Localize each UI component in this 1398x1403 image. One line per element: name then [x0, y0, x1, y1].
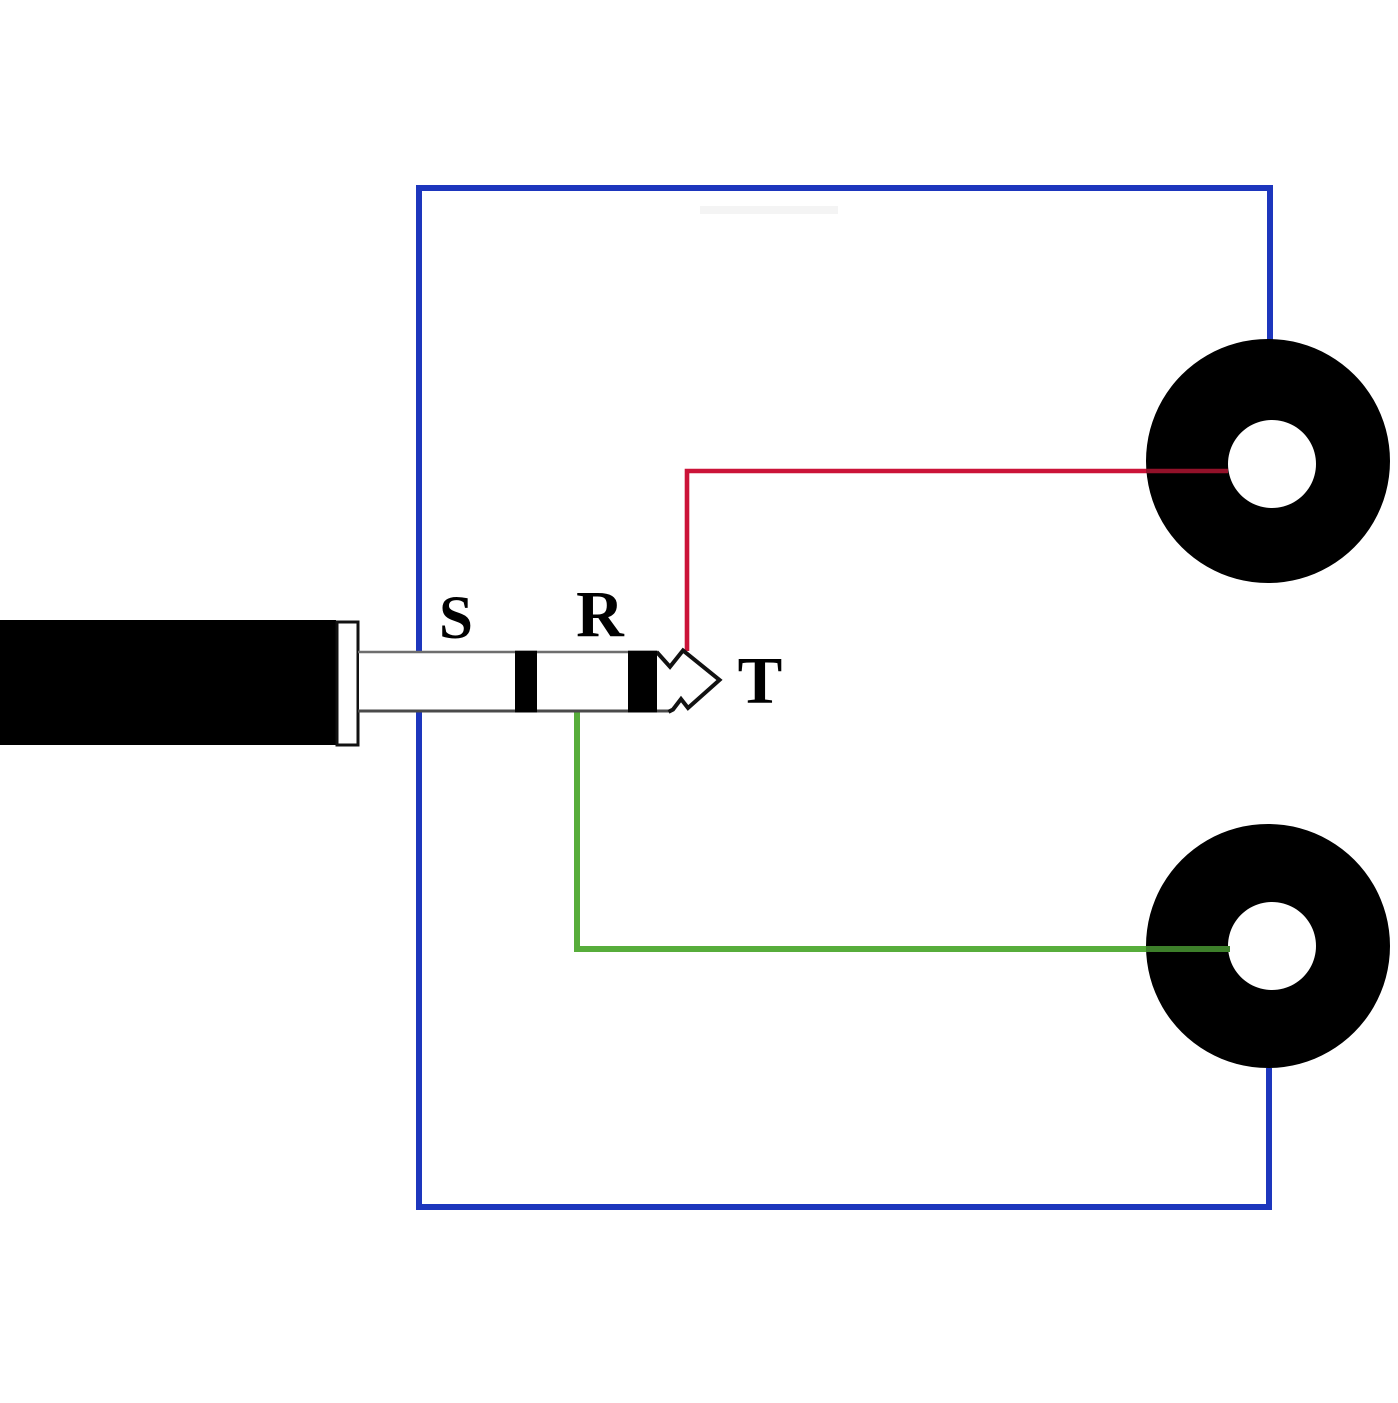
red overlap segment over jack J1: [1146, 469, 1228, 474]
svg-text:R: R: [576, 578, 625, 651]
tip T outline: [657, 651, 720, 712]
RCA jack J2 bottom donut: [1146, 824, 1390, 1068]
band separator 2: [628, 651, 657, 713]
shaft bottom edge: [358, 710, 670, 713]
wire green tip-to-bottom-jack: [577, 711, 1146, 949]
wire sleeve-blue loop: [419, 188, 1270, 1207]
faint artifact line below top wire: [700, 206, 838, 214]
plug body (handle): [0, 620, 336, 745]
RCA jack J1 top donut: [1146, 339, 1390, 583]
plug shaft white fill with tip: [359, 651, 720, 712]
svg-text:T: T: [738, 644, 783, 718]
svg-text:S: S: [439, 585, 473, 652]
green overlap segment over jack J2: [1146, 946, 1230, 952]
plug collar white band: [337, 622, 358, 745]
wire red ring-to-top-jack: [687, 471, 1146, 651]
band separator 1: [515, 651, 537, 713]
shaft top edge: [358, 651, 658, 654]
